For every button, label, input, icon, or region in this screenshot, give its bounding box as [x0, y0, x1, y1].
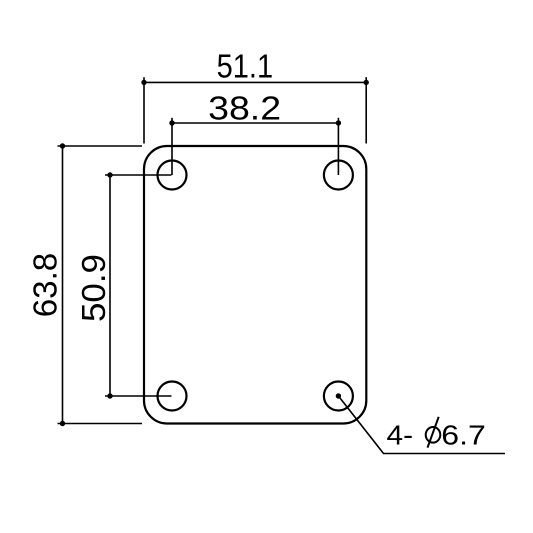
extension line 50.9 bottom — [105, 395, 172, 397]
hole bottom-right — [324, 382, 353, 411]
dimension dot 63.8 top — [60, 143, 65, 148]
dimension line 38.2 — [172, 122, 338, 124]
extension line 38.2 right — [337, 118, 339, 175]
leader dot at bottom-right hole center — [336, 393, 341, 398]
dimension line 50.9 — [109, 175, 111, 396]
neck plate outline — [144, 146, 366, 424]
dimension dot 38.2 left — [169, 120, 174, 125]
dimension dot 50.9 bottom — [107, 393, 112, 398]
extension line 38.2 left — [171, 118, 173, 175]
hole top-left — [158, 161, 187, 190]
svg-text:51.1: 51.1 — [217, 48, 274, 85]
extension line 51.1 right — [365, 77, 367, 143]
phi symbol circle — [426, 427, 441, 443]
svg-text:50.9: 50.9 — [75, 254, 112, 322]
phi symbol stroke — [428, 417, 439, 448]
dimension dot 50.9 top — [107, 172, 112, 177]
hole bottom-left — [158, 382, 187, 411]
extension line 50.9 top — [105, 174, 172, 176]
dimension dot 51.1 right — [364, 80, 369, 85]
extension line 63.8 bottom — [58, 423, 143, 425]
extension line 51.1 left — [143, 77, 145, 143]
leader line — [338, 396, 505, 454]
extension line 63.8 top — [58, 145, 143, 147]
dimension line 51.1 — [144, 81, 366, 83]
svg-text:4-: 4- — [387, 419, 414, 450]
dimension dot 38.2 right — [336, 120, 341, 125]
dimension dot 63.8 bottom — [60, 421, 65, 426]
dimension dot 51.1 left — [141, 80, 146, 85]
dimension line 63.8 — [62, 146, 64, 424]
svg-text:38.2: 38.2 — [208, 89, 281, 126]
hole top-right — [324, 161, 353, 190]
svg-text:63.8: 63.8 — [26, 253, 63, 318]
svg-text:6.7: 6.7 — [441, 419, 486, 450]
